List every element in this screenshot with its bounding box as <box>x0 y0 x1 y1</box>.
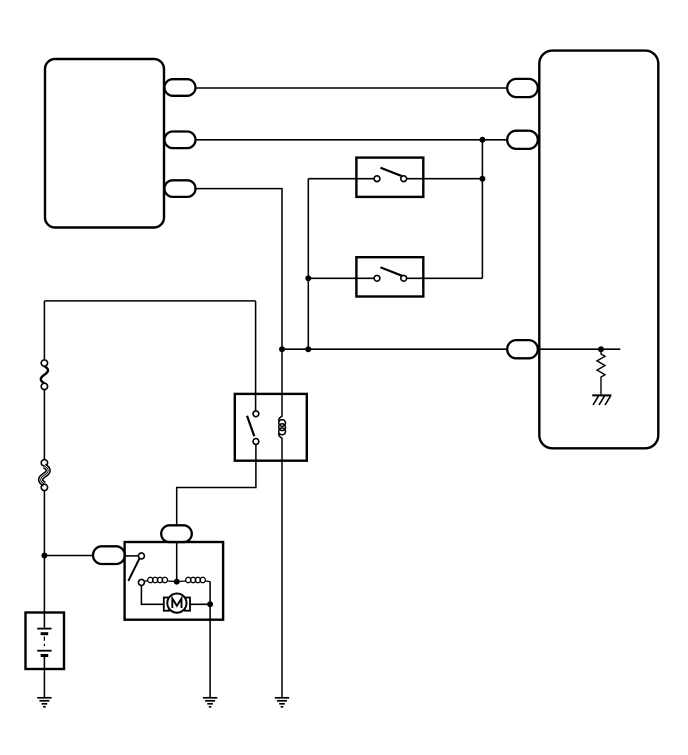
junction main node mid <box>305 346 311 352</box>
switch SW2 right contact <box>401 275 407 281</box>
junction coil node <box>174 579 180 585</box>
main wire to pin B3 <box>282 348 507 350</box>
motor M1 left brush <box>164 598 169 611</box>
wire left vertical upper <box>43 301 45 360</box>
battery cell 2 long plate <box>37 650 51 652</box>
relay upper contact <box>253 411 259 417</box>
pump switch lower contact <box>138 579 144 585</box>
connector box A (left module) <box>45 59 164 228</box>
pin A2 (pill terminal) <box>165 132 196 149</box>
motor unit box <box>125 542 224 620</box>
ground G1 (battery) <box>37 698 51 707</box>
choke coil L2 <box>144 577 177 582</box>
battery cell 2 short plate <box>41 654 49 657</box>
pin B1 (pill terminal) <box>507 79 538 97</box>
relay coil L1 <box>279 349 286 698</box>
switch SW1 right contact <box>401 176 407 182</box>
relay lower contact <box>253 439 259 445</box>
switch SW2 left contact <box>374 275 380 281</box>
junction switch1 output <box>479 176 485 182</box>
wire A2 to B2 <box>196 139 508 141</box>
junction on wire A2-B2 <box>479 137 485 143</box>
switch SW1 left contact <box>374 176 380 182</box>
junction main node left <box>279 346 285 352</box>
motor unit top pill terminal <box>161 525 192 542</box>
motor M1 right brush <box>185 598 190 611</box>
wire bus vertical at x482 <box>481 140 483 278</box>
connector box B (right module) <box>539 51 658 449</box>
relay blade <box>247 416 254 436</box>
wire A1 to B1 <box>196 87 508 89</box>
junction switch2 input <box>305 275 311 281</box>
wire battery feed top <box>44 300 255 302</box>
pin B3 (pill terminal) <box>507 340 538 358</box>
resistor R1 <box>597 349 605 394</box>
wire left vertical lower <box>43 491 45 628</box>
ground G3 (relay coil) <box>275 698 289 707</box>
wire top pill to coil junction <box>176 542 178 582</box>
wire A3 down to main node <box>196 189 282 350</box>
wire battery negative to ground <box>43 657 45 698</box>
wire left vertical middle <box>43 390 45 460</box>
wire relay output to motor unit <box>177 444 256 525</box>
battery dashed link <box>43 637 45 646</box>
battery cell 1 long plate <box>37 628 51 630</box>
wire pin B3 to resistor node <box>539 348 621 350</box>
switch SW2 blade <box>381 267 403 276</box>
wire lower contact to motor left terminal <box>141 585 163 604</box>
junction pump feed <box>41 553 47 559</box>
wire into switch SW2 <box>308 277 374 279</box>
pump switch upper contact <box>138 553 144 559</box>
wire out of switch SW2 <box>407 277 483 279</box>
pin B2 (pill terminal) <box>507 131 538 149</box>
switch SW1 box <box>356 158 423 197</box>
junction resistor node <box>598 346 604 352</box>
fuse F1 <box>41 360 48 390</box>
pin A3 (pill terminal) <box>165 180 196 197</box>
junction motor right node <box>207 601 213 607</box>
wire vertical at x308 <box>307 179 309 350</box>
wire coil to motor right terminal <box>209 582 211 605</box>
wire to relay contact <box>255 301 257 411</box>
motor M1 body <box>167 594 186 613</box>
motor unit side pill terminal <box>93 546 125 564</box>
battery cell 1 short plate <box>41 632 49 635</box>
wire motor ground <box>209 604 211 698</box>
wire into switch SW1 <box>308 178 374 180</box>
wire to pump connector <box>44 555 93 557</box>
fusible link F2 <box>41 460 49 491</box>
relay RY1 box <box>235 394 307 461</box>
ground G2 (motor) <box>203 698 217 707</box>
battery BT1 box <box>26 613 65 670</box>
ground G4 (hatched, inside module B) <box>592 395 611 405</box>
motor M1 letter <box>172 598 181 608</box>
pump switch blade <box>128 559 139 581</box>
pin A1 (pill terminal) <box>165 79 196 96</box>
wire motor right terminal <box>190 603 210 605</box>
switch SW2 box <box>356 257 423 296</box>
switch SW1 blade <box>381 168 403 177</box>
wire into pump switch <box>125 555 139 557</box>
wire out of switch SW1 <box>407 178 483 180</box>
choke coil L3 <box>177 577 210 582</box>
